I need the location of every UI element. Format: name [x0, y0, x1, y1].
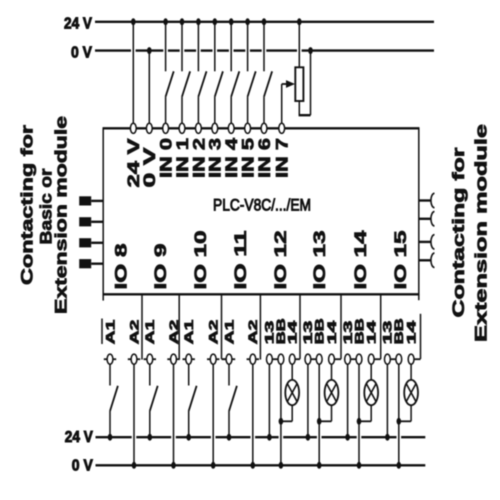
svg-text:IO 8: IO 8	[112, 244, 130, 290]
terminal A1 socket circle at x=229.0	[226, 354, 232, 364]
junction dot 24V rail / switch S0 wire	[163, 18, 168, 25]
wire 14 to lamp P1	[291, 364, 293, 380]
wire 14 to lamp P3	[370, 364, 372, 380]
terminal A2 socket circle at x=173.5	[171, 354, 177, 364]
junction dot 24V rail / switch S4 wire	[229, 18, 234, 25]
wire 13 to bottom 24V rail #3	[347, 364, 349, 437]
bridge wire 13-BB at x=269.4	[272, 358, 278, 360]
wire lamp P3 to BB column	[359, 405, 371, 421]
separator bar left of A1 (IO8)	[101, 319, 103, 345]
wire 24V rail to terminal 24V	[132, 22, 134, 124]
switch S0 (input IN 0)	[166, 22, 174, 124]
wire BB to bottom 0V rail #4	[398, 364, 400, 465]
terminal IN0 (top pin)	[163, 123, 169, 133]
junction dot 24V rail / switch S5 wire	[245, 18, 250, 25]
left bus contact tab 3	[79, 238, 103, 247]
terminal 14 socket circle at x=411.1	[408, 354, 414, 364]
terminal A2 socket circle at x=252.8	[250, 354, 256, 364]
junction dot BB/lamp P2 branch	[317, 418, 322, 425]
relay coil switch contact K2 (A1 to 24V)	[150, 364, 158, 436]
svg-text:Contacting for: Contacting for	[18, 125, 36, 285]
terminal 13 socket circle at x=387.4	[385, 354, 391, 364]
svg-text:IN 0: IN 0	[157, 138, 175, 178]
wiper arrowhead	[286, 80, 295, 88]
terminal BB socket circle at x=319.2	[316, 354, 322, 364]
terminal 0V (top pin)	[146, 123, 152, 133]
terminal A1 socket circle at x=149.8	[147, 354, 153, 364]
separator bar with elbow to terminal 14 (IO15)	[414, 314, 421, 359]
bridge wire 13-BB at x=307.9	[311, 358, 317, 360]
terminal IN7 (top pin)	[279, 123, 285, 133]
wire 14 to lamp P2	[331, 364, 333, 380]
junction dot BB/lamp P3 branch	[357, 418, 362, 425]
relay coil switch contact K3 (A1 to 24V)	[189, 364, 197, 436]
terminal IN3 (top pin)	[212, 123, 218, 133]
svg-text:A1: A1	[144, 320, 157, 345]
output stub wire with elbow to contact A1 (IO11)	[222, 294, 227, 359]
potentiometer R1 body	[295, 67, 303, 101]
terminal IN1 (top pin)	[179, 123, 185, 133]
terminal BB socket circle at x=359.0	[356, 354, 362, 364]
terminal IN6 (top pin)	[261, 123, 267, 133]
wire A2 to bottom 0V rail #2	[173, 364, 175, 465]
junction dot A2 on bottom 0V rail #1	[132, 462, 137, 469]
switch S6 (input IN 6)	[264, 22, 272, 124]
junction dot 24V rail / switch S6 wire	[262, 18, 267, 25]
module U1 PLC-V8C/.../EM box	[103, 127, 419, 295]
svg-text:Extension module: Extension module	[472, 124, 490, 342]
output stub wire from box at x=142.0	[141, 294, 143, 359]
svg-text:A1: A1	[183, 320, 196, 345]
terminal A2 socket circle at x=134.0	[131, 354, 137, 364]
wire lamp P4 to BB column	[399, 405, 411, 421]
terminal 13 socket circle at x=347.6	[345, 354, 351, 364]
junction dot 24V rail / switch S2 wire	[196, 18, 201, 25]
bridge wire 13-BB at x=387.4	[390, 358, 396, 360]
terminal IN2 (top pin)	[196, 123, 202, 133]
switch S5 (input IN 5)	[248, 22, 256, 124]
terminal BB socket circle at x=280.9	[278, 354, 284, 364]
junction dot A1 K2 on bottom 24V rail	[148, 434, 153, 441]
svg-text:IO 9: IO 9	[152, 244, 170, 290]
svg-text:0 V: 0 V	[71, 44, 92, 61]
wire potentiometer R1 bottom to 0V rail	[299, 51, 311, 116]
svg-text:IO 11: IO 11	[232, 231, 250, 290]
0V supply rail (top), broken at wire crossings	[95, 49, 434, 51]
terminal A1 socket circle at x=110.0	[107, 354, 113, 364]
wire BB to bottom 0V rail #2	[318, 364, 320, 465]
junction dot 13 on bottom 24V rail #3	[345, 434, 350, 441]
terminal 13 socket circle at x=269.4	[267, 354, 273, 364]
switch S3 (input IN 3)	[215, 22, 223, 124]
output stub wire from box at x=260.4	[259, 294, 261, 359]
svg-text:IN 7: IN 7	[273, 138, 291, 178]
junction dot A1 K1 on bottom 24V rail	[108, 434, 113, 441]
wire IN7 terminal to potentiometer wiper	[282, 84, 286, 124]
svg-text:Contacting for: Contacting for	[450, 147, 468, 317]
svg-text:IN 4: IN 4	[223, 137, 241, 178]
output stub wire with elbow to terminal 14 (IO13)	[334, 294, 341, 359]
terminal IN5 (top pin)	[245, 123, 251, 133]
svg-text:A2: A2	[207, 320, 220, 345]
left bus contact tab 4	[79, 259, 103, 268]
lamp P3	[364, 380, 378, 405]
terminal A2 side ticks at x=252.8	[247, 358, 259, 360]
junction dot A2 on bottom 0V rail #2	[171, 462, 176, 469]
24V supply rail (bottom), broken at wire crossings	[96, 436, 426, 438]
terminal A1 side ticks at x=188.7	[183, 358, 195, 360]
left bus contact tab 2	[79, 217, 103, 226]
junction dot 0V rail / potentiometer return	[308, 47, 313, 54]
svg-text:A2: A2	[247, 320, 260, 345]
svg-text:A1: A1	[223, 320, 236, 345]
output stub wire with elbow to terminal 14 (IO12)	[295, 294, 300, 359]
wire BB to bottom 0V rail #3	[358, 364, 360, 465]
junction dot A2 on bottom 0V rail #3	[211, 462, 216, 469]
junction dot 13 on bottom 24V rail #1	[267, 434, 272, 441]
junction dot BB on bottom 0V rail #2	[317, 462, 322, 469]
svg-text:IO 14: IO 14	[352, 230, 370, 290]
right bus contact hook 1	[419, 193, 435, 207]
svg-text:14: 14	[405, 321, 418, 345]
wire A2 to bottom 0V rail #3	[212, 364, 214, 465]
junction dot BB/lamp P1 branch	[279, 418, 284, 425]
svg-text:0 V: 0 V	[72, 457, 93, 474]
terminal A2 socket circle at x=213.2	[210, 354, 216, 364]
junction dot 24V rail / potentiometer top	[297, 18, 302, 25]
terminal A2 side ticks at x=173.5	[167, 358, 179, 360]
terminal 14 socket circle at x=331.5	[329, 354, 335, 364]
wire A2 to bottom 0V rail #4	[252, 364, 254, 465]
terminal A1 socket circle at x=188.7	[186, 354, 192, 364]
terminal 14 socket circle at x=292.2	[289, 354, 295, 364]
junction dot A1 K3 on bottom 24V rail	[186, 434, 191, 441]
output stub wire with elbow to terminal 14 (IO14)	[374, 294, 381, 359]
svg-text:A2: A2	[128, 320, 141, 345]
svg-text:IO 15: IO 15	[392, 231, 410, 290]
terminal A2 side ticks at x=213.2	[207, 358, 219, 360]
svg-text:IN 5: IN 5	[239, 138, 257, 178]
svg-text:24 V: 24 V	[64, 16, 92, 33]
junction dot A1 K4 on bottom 24V rail	[227, 434, 232, 441]
junction dot A2 on bottom 0V rail #4	[251, 462, 256, 469]
wire 13 to bottom 24V rail #4	[386, 364, 388, 437]
wire lamp P1 to BB column	[281, 405, 292, 421]
svg-text:BB: BB	[393, 318, 406, 344]
lamp P1	[285, 380, 299, 405]
junction dot 24V rail / 24V terminal wire	[131, 18, 136, 25]
switch S1 (input IN 1)	[182, 22, 190, 124]
junction dot 24V rail / switch S3 wire	[213, 18, 218, 25]
terminal BB socket circle at x=398.8	[396, 354, 402, 364]
lamp P4	[404, 380, 418, 405]
switch S2 (input IN 2)	[198, 22, 206, 124]
terminal 24V (top pin)	[130, 123, 136, 133]
terminal 14 socket circle at x=371.2	[368, 354, 374, 364]
svg-text:IN 2: IN 2	[190, 138, 208, 178]
left bus contact tab 1	[79, 196, 103, 205]
junction dot BB on bottom 0V rail #3	[357, 462, 362, 469]
right bus contact hook 2	[419, 212, 435, 226]
svg-text:Extension module: Extension module	[52, 116, 70, 314]
svg-text:IO 12: IO 12	[272, 231, 290, 290]
24V supply rail (top)	[95, 21, 434, 23]
output stub wire from box at x=179.2	[178, 294, 180, 359]
wire A2 to bottom 0V rail #1	[133, 364, 135, 465]
lamp P2	[325, 380, 339, 405]
junction dot 0V rail / 0V terminal wire	[147, 47, 152, 54]
svg-text:IO 10: IO 10	[192, 231, 210, 290]
terminal A2 side ticks at x=134.0	[128, 358, 140, 360]
right bus contact hook 4	[419, 253, 435, 267]
wire 24V rail to potentiometer R1 top	[298, 22, 300, 68]
junction dot 13 on bottom 24V rail #4	[385, 434, 390, 441]
box bottom-left corner overshoot	[102, 294, 104, 300]
terminal A1 side ticks at x=110.0	[104, 358, 116, 360]
svg-text:14: 14	[365, 321, 378, 345]
svg-text:BB: BB	[353, 318, 366, 344]
terminal 13 socket circle at x=307.9	[305, 354, 311, 364]
junction dot BB on bottom 0V rail #1	[279, 462, 284, 469]
wire 0V rail to terminal 0V	[148, 51, 150, 124]
wire lamp P2 to BB column	[319, 405, 331, 421]
relay coil switch contact K1 (A1 to 24V)	[110, 364, 118, 436]
terminal IN4 (top pin)	[228, 123, 234, 133]
junction dot BB/lamp P4 branch	[397, 418, 402, 425]
svg-text:A2: A2	[168, 320, 181, 345]
bridge wire 13-BB at x=347.6	[351, 358, 357, 360]
svg-text:IO 13: IO 13	[311, 231, 329, 290]
box bottom-right corner overshoot	[418, 294, 420, 300]
svg-text:24 V: 24 V	[65, 429, 93, 446]
wire 13 to bottom 24V rail #1	[268, 364, 270, 437]
svg-text:14: 14	[286, 321, 299, 345]
svg-text:14: 14	[326, 321, 339, 345]
junction dot BB on bottom 0V rail #4	[397, 462, 402, 469]
terminal A1 side ticks at x=229.0	[223, 358, 235, 360]
wire 13 to bottom 24V rail #2	[307, 364, 309, 437]
svg-text:IN 6: IN 6	[256, 138, 274, 178]
svg-text:IN 3: IN 3	[207, 138, 225, 178]
svg-text:IN 1: IN 1	[174, 138, 192, 178]
svg-text:A1: A1	[104, 320, 117, 345]
svg-text:PLC-V8C/.../EM: PLC-V8C/.../EM	[213, 196, 311, 215]
junction dot 13 on bottom 24V rail #2	[306, 434, 311, 441]
switch S4 (input IN 4)	[231, 22, 239, 124]
0V supply rail (bottom)	[96, 464, 426, 466]
relay coil switch contact K4 (A1 to 24V)	[229, 364, 237, 436]
right bus contact hook 3	[419, 235, 435, 249]
svg-text:BB: BB	[313, 318, 326, 344]
wire BB to bottom 0V rail #1	[280, 364, 282, 465]
wire 14 to lamp P4	[410, 364, 412, 380]
junction dot 24V rail / switch S1 wire	[180, 18, 185, 25]
terminal A1 side ticks at x=149.8	[144, 358, 156, 360]
